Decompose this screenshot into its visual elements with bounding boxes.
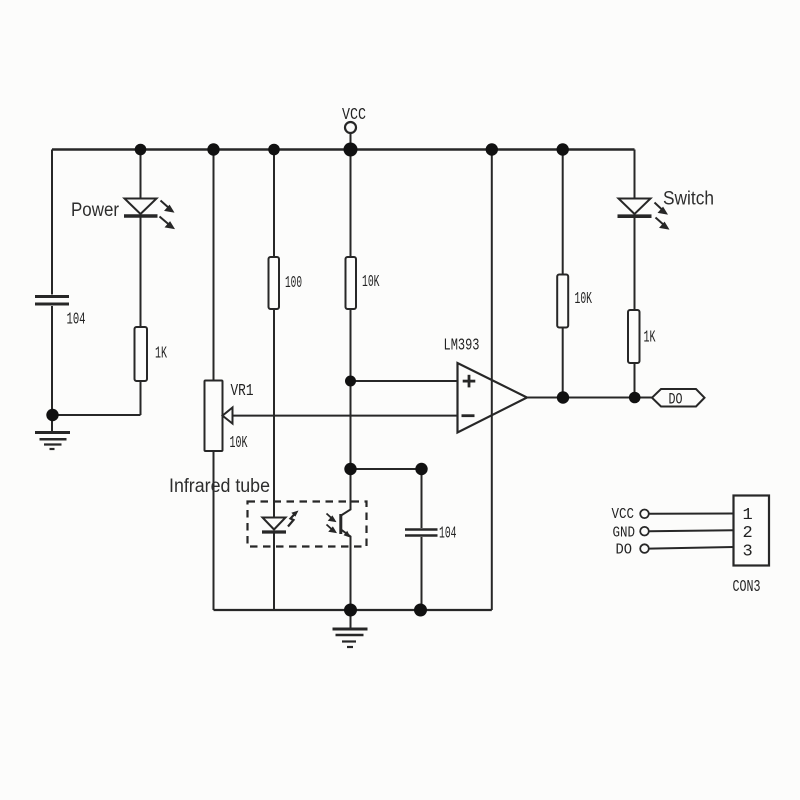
svg-text:3: 3 bbox=[743, 543, 753, 562]
svg-text:100: 100 bbox=[285, 274, 302, 293]
svg-text:10K: 10K bbox=[362, 273, 380, 292]
svg-text:VCC: VCC bbox=[612, 506, 635, 523]
svg-text:GND: GND bbox=[613, 525, 636, 542]
svg-text:LM393: LM393 bbox=[444, 337, 480, 356]
svg-text:VR1: VR1 bbox=[231, 382, 254, 401]
svg-text:Power: Power bbox=[71, 200, 120, 221]
svg-text:CON3: CON3 bbox=[733, 578, 761, 597]
svg-text:2: 2 bbox=[743, 524, 753, 543]
svg-text:104: 104 bbox=[439, 525, 457, 544]
svg-text:10K: 10K bbox=[575, 290, 593, 309]
svg-text:VCC: VCC bbox=[342, 106, 366, 125]
svg-text:1: 1 bbox=[743, 506, 753, 525]
svg-text:Infrared tube: Infrared tube bbox=[169, 476, 270, 497]
svg-text:DO: DO bbox=[669, 391, 683, 409]
svg-text:Switch: Switch bbox=[663, 189, 714, 210]
svg-text:DO: DO bbox=[616, 542, 633, 559]
svg-text:1K: 1K bbox=[155, 345, 167, 364]
svg-text:10K: 10K bbox=[230, 434, 248, 453]
svg-text:1K: 1K bbox=[644, 329, 656, 348]
svg-text:104: 104 bbox=[67, 311, 86, 330]
